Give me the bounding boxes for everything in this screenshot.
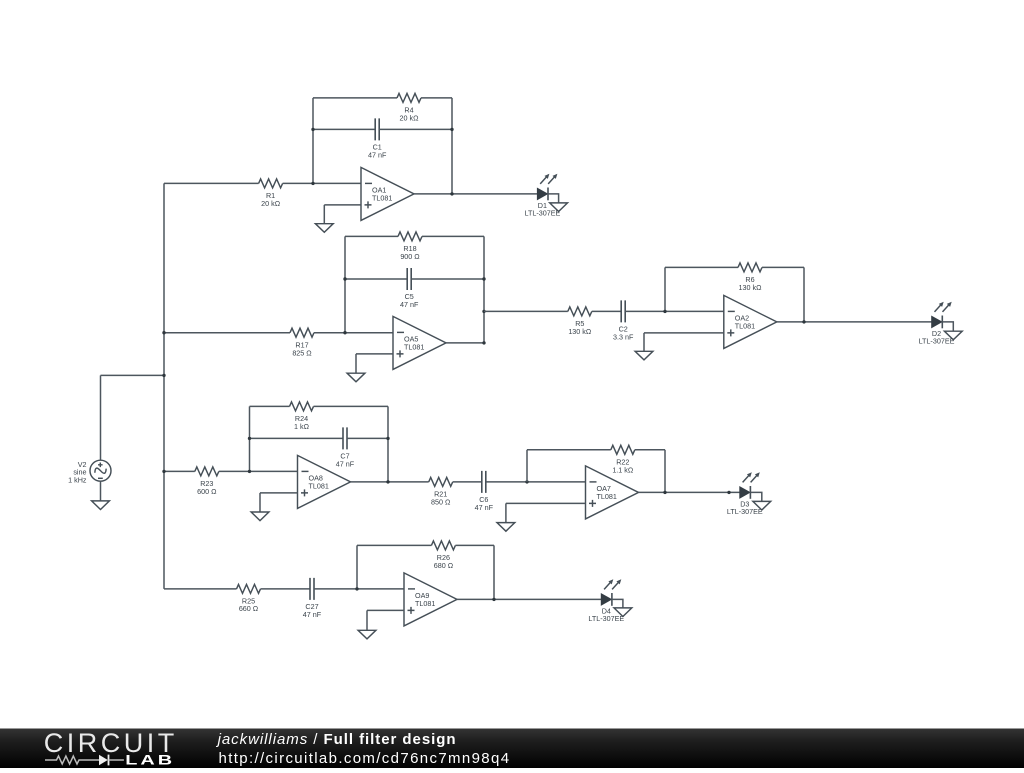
svg-text:47 nF: 47 nF [475,503,494,512]
svg-text:680 Ω: 680 Ω [434,561,454,570]
svg-text:TL081: TL081 [372,194,392,203]
svg-text:900 Ω: 900 Ω [400,252,420,261]
svg-text:20 kΩ: 20 kΩ [261,199,281,208]
svg-text:130 kΩ: 130 kΩ [568,327,592,336]
svg-text:1.1 kΩ: 1.1 kΩ [612,466,634,475]
svg-text:1 kΩ: 1 kΩ [294,422,310,431]
svg-text:600 Ω: 600 Ω [197,487,217,496]
svg-text:825 Ω: 825 Ω [292,349,312,358]
svg-text:LTL-307EE: LTL-307EE [727,507,763,516]
svg-text:1 kHz: 1 kHz [68,475,87,484]
svg-text:TL081: TL081 [415,599,435,608]
svg-text:47 nF: 47 nF [400,300,419,309]
svg-text:TL081: TL081 [404,343,424,352]
svg-text:LTL-307EE: LTL-307EE [588,614,624,623]
svg-text:130 kΩ: 130 kΩ [739,283,763,292]
svg-text:TL081: TL081 [597,492,617,501]
svg-text:jackwilliams / Full filter des: jackwilliams / Full filter design [216,731,457,748]
svg-text:850 Ω: 850 Ω [431,498,451,507]
svg-text:http://circuitlab.com/cd76nc7m: http://circuitlab.com/cd76nc7mn98q4 [219,750,511,767]
svg-text:TL081: TL081 [309,482,329,491]
svg-text:LTL-307EE: LTL-307EE [919,337,955,346]
svg-text:LAB: LAB [125,751,175,767]
svg-text:47 nF: 47 nF [336,459,355,468]
svg-text:TL081: TL081 [735,322,755,331]
svg-text:47 nF: 47 nF [303,610,322,619]
svg-text:3.3 nF: 3.3 nF [613,332,634,341]
svg-text:LTL-307EE: LTL-307EE [524,209,560,218]
svg-text:20 kΩ: 20 kΩ [400,114,420,123]
svg-text:47 nF: 47 nF [368,150,387,159]
svg-text:660 Ω: 660 Ω [239,604,259,613]
